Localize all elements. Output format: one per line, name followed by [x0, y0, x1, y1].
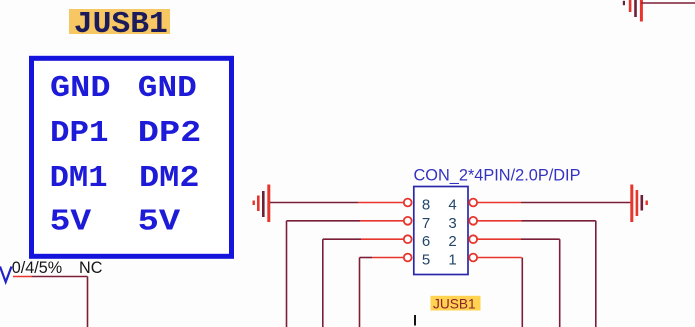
- svg-text:1: 1: [448, 252, 456, 269]
- svg-text:0/4/5%: 0/4/5%: [12, 259, 62, 277]
- connector JUSB1 pin-name box (blue body): [32, 58, 232, 256]
- wire pin2 net: maroon horizontal: [521, 238, 560, 240]
- svg-text:JUSB1: JUSB1: [433, 297, 476, 312]
- wire pin7 net: maroon horizontal: [287, 220, 361, 222]
- svg-text:3: 3: [448, 215, 456, 232]
- off-sheet net stub (blue V mark): [0, 267, 12, 283]
- wire pin2 net: red stub from pin 2: [477, 238, 521, 240]
- pin 7 terminal circle: [404, 217, 412, 225]
- svg-text:GND: GND: [138, 71, 197, 106]
- wire pin1 net: red stub from pin 1: [477, 257, 521, 259]
- wire pin8 net: red stub to pin 8: [358, 202, 404, 204]
- wire pin7 net: vertical drop: [286, 221, 288, 327]
- wire pin5 net: vertical drop: [359, 258, 361, 327]
- wire pin3 net: red stub from pin 3: [477, 220, 521, 222]
- wire pin8 net: maroon from ground to stub: [270, 202, 358, 204]
- wire NC net: short red segment: [13, 276, 32, 278]
- svg-text:DM1: DM1: [50, 161, 108, 196]
- wire NC net: horizontal to corner: [32, 276, 88, 278]
- connector U? body: CON_2*4PIN/2.0P/DIP part box: [414, 187, 468, 275]
- wire pin4 net: maroon run to right ground: [521, 202, 631, 204]
- pin 8 terminal circle: [404, 199, 412, 207]
- svg-text:GND: GND: [50, 71, 111, 106]
- svg-text:NC: NC: [79, 259, 103, 277]
- svg-text:5V: 5V: [138, 205, 181, 240]
- wire stub below bottom label (black tick): [414, 315, 416, 326]
- wire pin3 net: vertical drop: [595, 221, 597, 327]
- svg-text:5V: 5V: [50, 205, 92, 240]
- wire pin2 net: vertical drop: [559, 239, 561, 327]
- svg-text:5: 5: [422, 252, 430, 269]
- pin 4 terminal circle: [469, 199, 477, 207]
- svg-text:CON_2*4PIN/2.0P/DIP: CON_2*4PIN/2.0P/DIP: [414, 167, 581, 185]
- svg-text:DM2: DM2: [139, 161, 200, 196]
- ground symbol (left of connector): [253, 185, 271, 223]
- pin 5 terminal circle: [404, 254, 412, 262]
- pin 3 terminal circle: [469, 217, 477, 225]
- svg-text:4: 4: [448, 197, 456, 214]
- connector JUSB1 reference designator label (bottom, near footprint): [431, 296, 481, 312]
- wire pin6 net: maroon horizontal: [323, 238, 361, 240]
- ground symbol (top-right corner, clipped): [623, 0, 643, 22]
- wire pin7 net: red stub to pin 7: [360, 220, 404, 222]
- svg-text:DP2: DP2: [138, 116, 202, 151]
- wire pin3 net: maroon horizontal: [522, 220, 596, 222]
- wire pin6 net: vertical drop: [322, 239, 324, 327]
- wire pin4 net: red stub from pin 4: [477, 202, 521, 204]
- wire pin5 net: red stub to pin 5: [372, 257, 404, 259]
- pin 1 terminal circle: [469, 254, 477, 262]
- wire pin6 net: red stub to pin 6: [361, 238, 404, 240]
- pin 6 terminal circle: [404, 235, 412, 243]
- svg-text:2: 2: [448, 233, 456, 250]
- svg-text:JUSB1: JUSB1: [74, 7, 168, 42]
- svg-text:8: 8: [422, 197, 430, 214]
- wire NC net: vertical drop to sheet edge: [87, 277, 89, 327]
- ground symbol (right of connector): [630, 185, 648, 223]
- svg-text:7: 7: [422, 215, 430, 232]
- pin 2 terminal circle: [469, 235, 477, 243]
- connector JUSB1 reference designator label (top): [69, 7, 170, 42]
- wire pin1 net: vertical drop: [521, 258, 523, 327]
- svg-text:DP1: DP1: [50, 116, 109, 151]
- svg-text:6: 6: [422, 233, 430, 250]
- wire to top-right ground: [641, 2, 695, 4]
- wire pin5 net: maroon corner piece: [360, 257, 373, 259]
